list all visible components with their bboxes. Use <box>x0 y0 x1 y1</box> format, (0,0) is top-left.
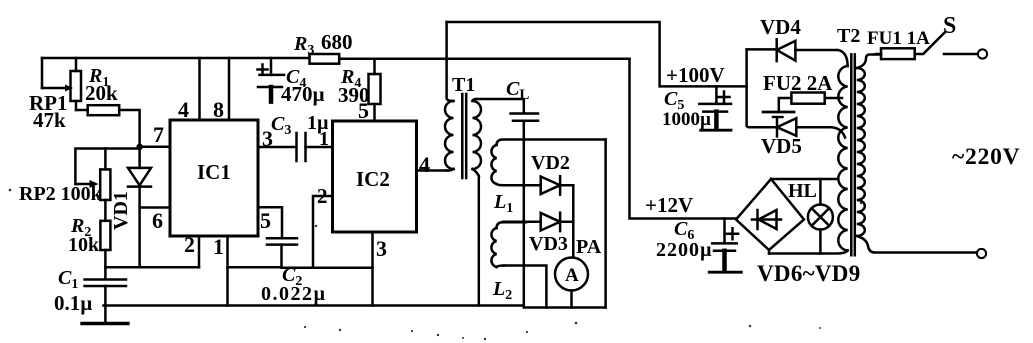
IC IC2 <box>333 121 417 232</box>
IC1 pin 1 <box>213 234 228 306</box>
svg-text:RP2 100k: RP2 100k <box>19 183 103 205</box>
ground symbol <box>82 306 128 324</box>
wire node C2/IC2 ground link <box>228 266 373 269</box>
wire +12V drop and feed <box>630 59 737 219</box>
IC1 pin 3 wire <box>258 126 295 151</box>
svg-text:~220V: ~220V <box>952 144 1020 170</box>
svg-text:4: 4 <box>178 97 189 122</box>
IC1 pin 4 <box>178 58 200 122</box>
resistor R4 390 <box>338 59 381 123</box>
fuse FU1 1A <box>867 28 930 59</box>
capacitor C3 1u <box>271 112 332 161</box>
svg-text:C3: C3 <box>271 113 291 138</box>
svg-text:1: 1 <box>213 234 224 259</box>
inductor L2 <box>491 222 526 303</box>
svg-text:CL: CL <box>506 78 529 103</box>
svg-text:L2: L2 <box>492 278 512 303</box>
svg-text:3: 3 <box>376 236 387 261</box>
svg-text:0.022µ: 0.022µ <box>261 283 327 305</box>
wire bottom rail right segment <box>524 306 606 309</box>
wire T2 secondary bottom to terminal <box>857 236 977 253</box>
svg-text:10k: 10k <box>68 234 100 256</box>
svg-text:5: 5 <box>260 208 271 233</box>
ammeter PA <box>555 236 602 308</box>
svg-text:T1: T1 <box>452 74 475 96</box>
svg-text:T2: T2 <box>837 25 860 47</box>
IC1 pin 8 <box>213 58 229 122</box>
wire L2 bottom return <box>504 266 546 308</box>
terminal top <box>978 49 987 58</box>
svg-text:PA: PA <box>576 236 602 258</box>
label +12V <box>645 193 693 217</box>
svg-text:2: 2 <box>317 184 328 208</box>
wire node7 to RP2 <box>75 149 139 185</box>
wire L1 to VD2 <box>503 184 541 187</box>
svg-text:VD6~VD9: VD6~VD9 <box>757 261 861 286</box>
svg-text:+100V: +100V <box>666 63 725 87</box>
capacitor CL <box>477 78 539 306</box>
svg-text:7: 7 <box>153 122 164 147</box>
svg-text:HL: HL <box>788 180 817 202</box>
bridge rectifier VD6~VD9 <box>736 179 861 286</box>
wire T1 secondary bottom <box>478 176 481 306</box>
label +100V <box>666 63 725 87</box>
diode VD3 <box>529 213 573 255</box>
svg-text:1: 1 <box>319 128 329 150</box>
wire T2 secondary top to FU1 <box>857 55 881 69</box>
switch S <box>924 13 956 53</box>
IC IC1 <box>170 120 258 236</box>
node 7 junction <box>136 144 142 150</box>
svg-text:VD2: VD2 <box>531 152 570 174</box>
svg-text:6: 6 <box>152 208 163 233</box>
svg-text:47k: 47k <box>33 108 66 132</box>
svg-text:8: 8 <box>213 97 224 122</box>
svg-text:1000µ: 1000µ <box>662 109 711 130</box>
svg-text:+12V: +12V <box>645 193 693 217</box>
svg-text:VD5: VD5 <box>761 134 802 158</box>
transformer T2 <box>837 25 865 255</box>
svg-text:VD4: VD4 <box>760 15 801 39</box>
rectifier rail +100V <box>745 49 748 125</box>
wire bridge top to T2 <box>771 178 837 181</box>
fuse FU2 2A <box>763 71 842 111</box>
svg-text:A: A <box>565 265 579 286</box>
IC1 pin 5 wire <box>258 207 282 238</box>
svg-text:S: S <box>943 13 956 39</box>
svg-text:2: 2 <box>184 232 195 257</box>
svg-text:0.1µ: 0.1µ <box>54 291 92 315</box>
IC1 pin 2 <box>184 232 199 267</box>
diode VD5 <box>747 118 845 158</box>
svg-text:R3: R3 <box>293 33 314 58</box>
wire switch to terminal <box>944 53 978 56</box>
wire IC1 pin6 stub <box>140 208 170 234</box>
potentiometer RP1 47k <box>29 58 81 132</box>
wire L2 to VD3 <box>503 221 541 224</box>
IC2 pin 2 wire <box>313 184 333 268</box>
wire node7 to IC1 pin7 <box>140 122 170 147</box>
svg-text:VD1: VD1 <box>110 191 132 230</box>
IC2 pin 3 <box>373 232 388 306</box>
svg-text:5: 5 <box>358 98 369 123</box>
svg-text:IC1: IC1 <box>197 160 231 184</box>
label ~220V <box>952 144 1020 170</box>
svg-text:20k: 20k <box>85 81 118 105</box>
diode VD1 <box>110 147 151 267</box>
lamp HL <box>788 179 833 254</box>
wire top rail +100V feed <box>447 22 747 86</box>
IC2 pin 1 label <box>319 128 329 150</box>
svg-text:4: 4 <box>419 152 430 177</box>
inductor L1 <box>491 145 513 216</box>
wire bottom rail <box>104 304 524 307</box>
svg-text:FU1 1A: FU1 1A <box>867 28 930 49</box>
resistor R2 10k <box>68 200 110 267</box>
wire top rail left (supply to IC1/R3) <box>42 57 310 60</box>
resistor R3 680 <box>293 30 353 64</box>
pickup loop frame <box>497 140 606 308</box>
transformer T1 <box>445 22 481 178</box>
capacitor C1 0.1u <box>54 267 126 315</box>
potentiometer RP2 100k <box>19 149 110 206</box>
IC2 pin 4 wire <box>417 152 447 177</box>
resistor R1 20k <box>76 65 140 143</box>
diode VD4 <box>747 15 848 66</box>
wire node (pin2/C1/R2/VD1) <box>105 266 199 269</box>
svg-text:IC2: IC2 <box>356 167 390 191</box>
terminal bottom <box>977 249 986 258</box>
capacitor C4 470u <box>258 58 325 106</box>
svg-text:L1: L1 <box>493 191 513 216</box>
capacitor C5 1000u <box>662 86 731 130</box>
svg-text:VD3: VD3 <box>529 233 568 255</box>
wire R3 output rail to +12V corner <box>339 58 629 61</box>
svg-text:680: 680 <box>321 30 353 54</box>
ground symbol FU2 <box>763 112 794 117</box>
wire bridge bottom to T2 <box>769 251 848 254</box>
svg-text:C1: C1 <box>58 267 78 292</box>
diode VD2 <box>531 152 573 195</box>
svg-text:470µ: 470µ <box>281 82 325 106</box>
speckles <box>9 189 863 340</box>
wire diode output to PA <box>572 185 575 257</box>
svg-text:2200µ: 2200µ <box>656 239 713 261</box>
capacitor C2 0.022u <box>261 238 327 305</box>
svg-text:FU2 2A: FU2 2A <box>763 71 833 95</box>
capacitor C6 2200u <box>656 218 741 272</box>
